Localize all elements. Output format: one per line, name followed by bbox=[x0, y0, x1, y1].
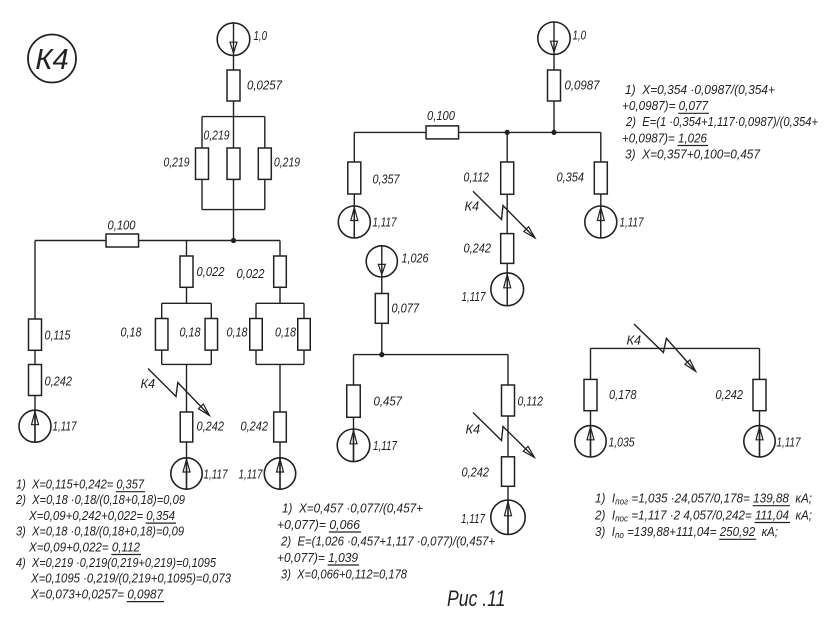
svg-text:0,022: 0,022 bbox=[237, 266, 265, 281]
svg-text:0,0987: 0,0987 bbox=[565, 78, 601, 93]
svg-text:0,219: 0,219 bbox=[164, 155, 190, 170]
svg-text:1,0: 1,0 bbox=[254, 28, 268, 43]
svg-text:К4: К4 bbox=[465, 199, 480, 214]
svg-text:3) X=0,066+0,112=0,178: 3) X=0,066+0,112=0,178 bbox=[281, 566, 408, 581]
svg-text:0,115: 0,115 bbox=[45, 328, 72, 343]
svg-text:0,357: 0,357 bbox=[373, 172, 401, 187]
svg-text:0,077: 0,077 bbox=[392, 301, 420, 316]
svg-text:0,112: 0,112 bbox=[518, 394, 544, 409]
svg-text:0,18: 0,18 bbox=[227, 325, 249, 340]
svg-text:0,242: 0,242 bbox=[197, 419, 225, 434]
svg-text:1,117: 1,117 bbox=[373, 215, 398, 230]
svg-text:1) X=0,354 ·0,0987/(0,354+: 1) X=0,354 ·0,0987/(0,354+ bbox=[625, 82, 775, 97]
svg-text:+0,0987)= 1,026: +0,0987)= 1,026 bbox=[622, 130, 708, 145]
svg-text:2) X=0,18 ·0,18/(0,18+0,18)=0: 2) X=0,18 ·0,18/(0,18+0,18)=0,09 bbox=[15, 492, 185, 507]
svg-text:К4: К4 bbox=[141, 376, 156, 391]
svg-text:0,112: 0,112 bbox=[464, 170, 490, 185]
svg-text:1,117: 1,117 bbox=[461, 511, 486, 526]
svg-text:1) X=0,115+0,242= 0,357: 1) X=0,115+0,242= 0,357 bbox=[16, 477, 145, 492]
svg-text:0,219: 0,219 bbox=[274, 155, 300, 170]
svg-text:1,026: 1,026 bbox=[402, 251, 430, 266]
svg-text:0,354: 0,354 bbox=[557, 170, 585, 185]
svg-text:1) Iпог =1,035 ·24,057/0,178=: 1) Iпог =1,035 ·24,057/0,178= 139,88 кА; bbox=[595, 491, 812, 507]
svg-text:0,100: 0,100 bbox=[108, 218, 137, 233]
svg-text:К4: К4 bbox=[627, 333, 642, 348]
svg-text:0,242: 0,242 bbox=[464, 241, 492, 256]
svg-text:0,0257: 0,0257 bbox=[247, 78, 283, 93]
svg-text:+0,0987)= 0,077: +0,0987)= 0,077 bbox=[622, 98, 709, 113]
svg-text:0,219: 0,219 bbox=[204, 128, 230, 143]
svg-text:1,117: 1,117 bbox=[373, 438, 398, 453]
svg-text:2) E=(1 ·0,354+1,117·0,0987)/: 2) E=(1 ·0,354+1,117·0,0987)/(0,354+ bbox=[625, 114, 818, 129]
svg-text:X=0,09+0,022= 0,112: X=0,09+0,022= 0,112 bbox=[28, 539, 141, 554]
svg-text:0,457: 0,457 bbox=[374, 394, 403, 409]
svg-text:X=0,073+0,0257= 0,0987: X=0,073+0,0257= 0,0987 bbox=[30, 586, 164, 601]
svg-text:0,100: 0,100 bbox=[427, 108, 456, 123]
svg-text:2) E=(1,026 ·0,457+1,117 ·0,0: 2) E=(1,026 ·0,457+1,117 ·0,077)/(0,457+ bbox=[280, 533, 495, 548]
svg-text:1,117: 1,117 bbox=[462, 289, 487, 304]
svg-text:0,022: 0,022 bbox=[197, 264, 225, 279]
svg-text:1,0: 1,0 bbox=[573, 28, 587, 43]
svg-text:0,178: 0,178 bbox=[609, 387, 637, 402]
svg-text:1,117: 1,117 bbox=[239, 467, 264, 482]
svg-text:2) Iпос =1,117 ·2 4,057/0,242: 2) Iпос =1,117 ·2 4,057/0,242= 111,04 кА… bbox=[594, 507, 812, 523]
svg-text:+0,077)= 1,039: +0,077)= 1,039 bbox=[277, 550, 358, 565]
svg-text:1,117: 1,117 bbox=[620, 215, 645, 230]
svg-text:3) Iпо =139,88+111,04= 250,92: 3) Iпо =139,88+111,04= 250,92 кА; bbox=[595, 524, 778, 540]
svg-text:4) X=0,219 ·0,219(0,219+0,219: 4) X=0,219 ·0,219(0,219+0,219)=0,1095 bbox=[16, 555, 217, 570]
svg-text:1) X=0,457 ·0,077/(0,457+: 1) X=0,457 ·0,077/(0,457+ bbox=[282, 500, 423, 515]
svg-text:+0,077)= 0,066: +0,077)= 0,066 bbox=[277, 517, 361, 532]
svg-text:0,242: 0,242 bbox=[462, 465, 490, 480]
svg-text:1,117: 1,117 bbox=[777, 435, 802, 450]
svg-text:3) X=0,357+0,100=0,457: 3) X=0,357+0,100=0,457 bbox=[625, 146, 761, 161]
svg-text:К4: К4 bbox=[466, 422, 481, 437]
svg-text:0,242: 0,242 bbox=[716, 387, 744, 402]
svg-text:0,18: 0,18 bbox=[180, 325, 202, 340]
svg-text:К4: К4 bbox=[35, 44, 68, 76]
svg-text:X=0,09+0,242+0,022= 0,354: X=0,09+0,242+0,022= 0,354 bbox=[28, 508, 175, 523]
svg-text:1,117: 1,117 bbox=[204, 467, 229, 482]
svg-text:3) X=0,18 ·0,18/(0,18+0,18)=0: 3) X=0,18 ·0,18/(0,18+0,18)=0,09 bbox=[16, 524, 184, 539]
svg-text:0,242: 0,242 bbox=[45, 374, 73, 389]
svg-text:0,18: 0,18 bbox=[275, 325, 297, 340]
svg-text:0,242: 0,242 bbox=[241, 419, 269, 434]
svg-text:Рис .11: Рис .11 bbox=[447, 586, 506, 611]
svg-text:X=0,1095 ·0,219/(0,219+0,1095): X=0,1095 ·0,219/(0,219+0,1095)=0,073 bbox=[30, 571, 232, 586]
svg-text:1,117: 1,117 bbox=[53, 419, 78, 434]
svg-text:0,18: 0,18 bbox=[121, 325, 143, 340]
svg-text:1,035: 1,035 bbox=[609, 435, 636, 450]
